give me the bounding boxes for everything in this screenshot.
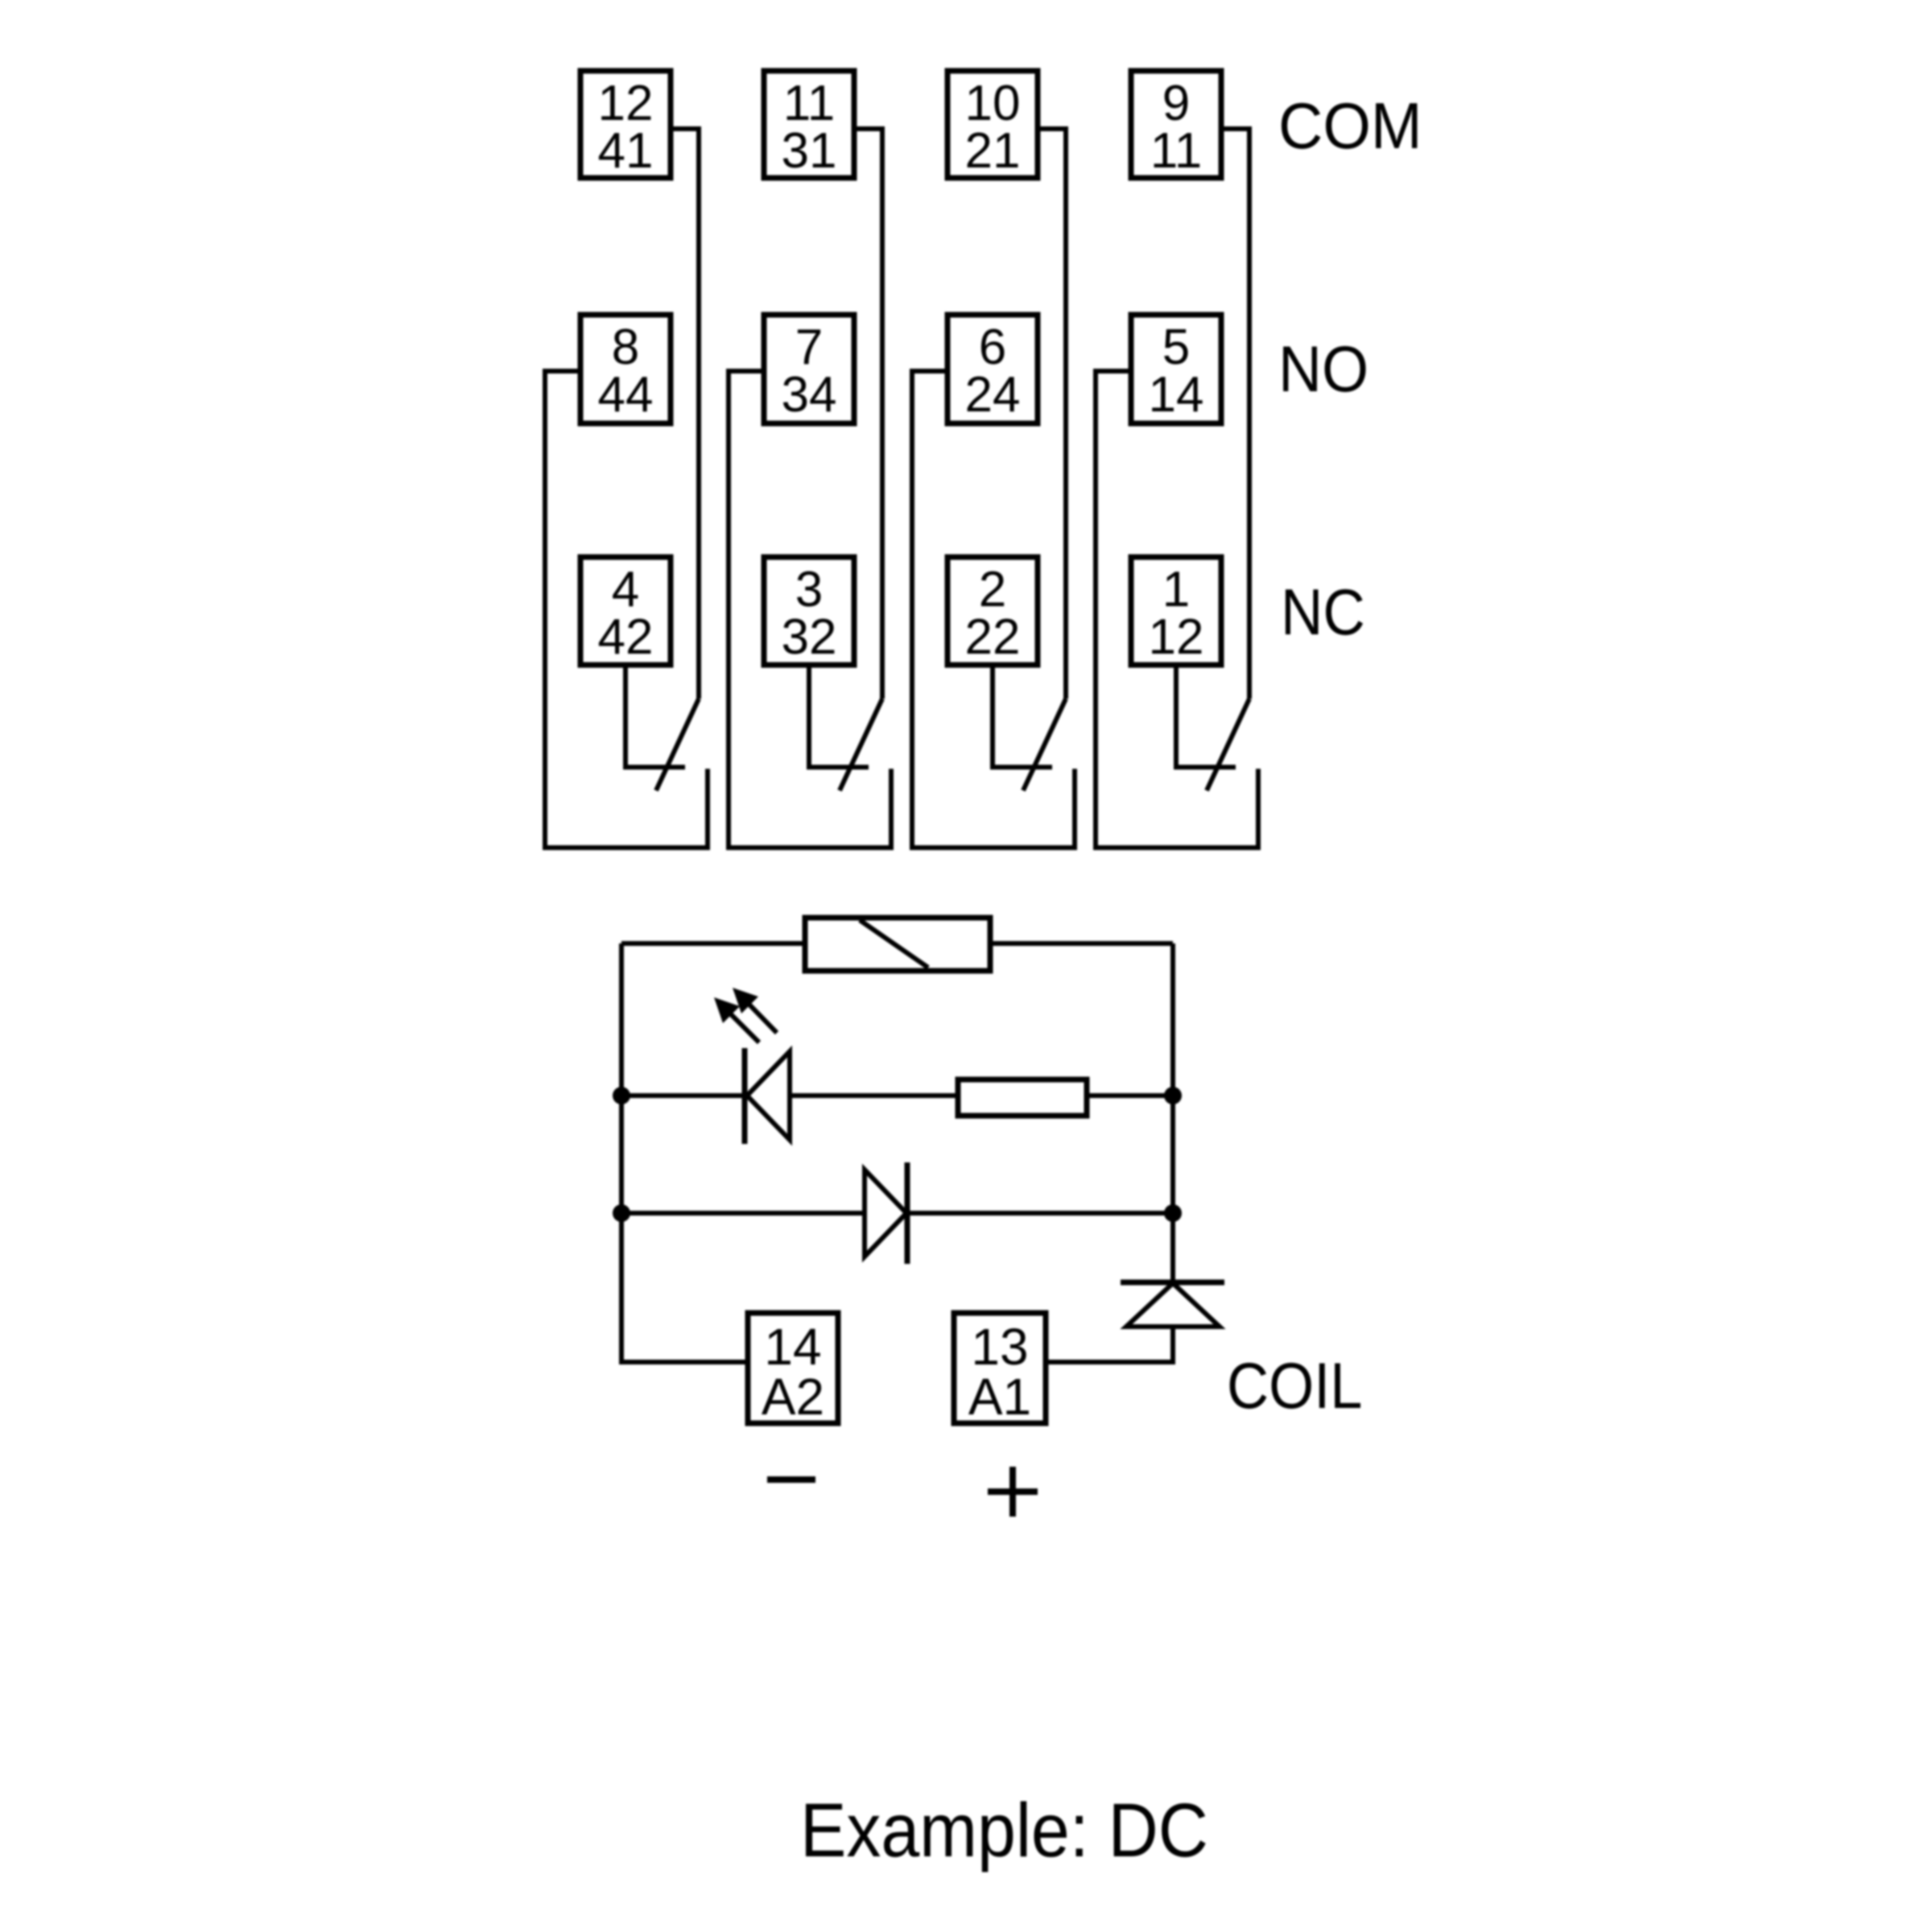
terminal 9/11 (COM pole 1) — [1131, 71, 1221, 179]
relay coil K1 (rectangle with diagonal) — [805, 918, 990, 971]
wire: top loop left segment to relay coil — [621, 941, 805, 946]
svg-text:34: 34 — [782, 367, 837, 423]
terminal 2/22 (NC pole 2) — [947, 557, 1038, 665]
junction: A2 rail / diode branch — [613, 1204, 630, 1222]
svg-text:COM: COM — [1278, 89, 1422, 162]
label COM row — [1278, 89, 1422, 162]
polarity mark plus (A1) — [988, 1467, 1038, 1517]
label NO row — [1278, 332, 1368, 405]
wire: COM terminal 12/41 to contact arm pivot — [671, 129, 699, 699]
wire: NO terminal 5/14 down to NO fixed contact stub — [1096, 371, 1258, 848]
wire: suppressor diode to terminal 13/A1 — [1046, 1327, 1173, 1362]
svg-text:14: 14 — [1149, 367, 1204, 423]
svg-text:22: 22 — [965, 609, 1021, 665]
wire: LED branch left segment — [621, 1093, 745, 1098]
changeover contact arm, pole 3 (crosses NC contact) — [840, 699, 882, 791]
svg-text:12: 12 — [1149, 609, 1204, 665]
caption Example: DC — [800, 1788, 1208, 1873]
svg-text:NC: NC — [1281, 576, 1365, 649]
wire: LED to resistor — [790, 1093, 958, 1098]
resistor (LED series) — [958, 1080, 1087, 1116]
terminal 7/34 (NO pole 3) — [764, 315, 854, 423]
svg-text:44: 44 — [598, 367, 654, 423]
svg-text:31: 31 — [782, 123, 837, 179]
wire: NC terminal 4/42 down to NC fixed contact — [625, 665, 685, 767]
label COIL — [1227, 1350, 1362, 1422]
svg-text:COIL: COIL — [1227, 1350, 1362, 1422]
diode (reverse polarity protection) — [865, 1162, 907, 1264]
terminal 8/44 (NO pole 4) — [580, 315, 671, 423]
wire: COM terminal 11/31 to contact arm pivot — [854, 129, 882, 699]
svg-text:A2: A2 — [762, 1368, 824, 1426]
wire: NO terminal 6/24 down to NO fixed contact stub — [912, 371, 1075, 848]
terminal 12/41 (COM pole 4) — [580, 71, 671, 179]
wire: NC terminal 1/12 down to NC fixed contact — [1176, 665, 1236, 767]
label NC row — [1281, 576, 1365, 649]
wire: A2 rail (left side) from top loop down to terminal 14/A2 — [621, 943, 748, 1362]
terminal 6/24 (NO pole 2) — [947, 315, 1038, 423]
LED indicator (triangle, cathode bar, emission arrows) — [714, 988, 790, 1144]
svg-text:32: 32 — [782, 609, 837, 665]
wire: diode branch left segment — [621, 1211, 865, 1216]
svg-text:Example: DC: Example: DC — [800, 1788, 1208, 1873]
changeover contact arm, pole 4 (crosses NC contact) — [656, 699, 699, 791]
svg-text:42: 42 — [598, 609, 654, 665]
svg-text:NO: NO — [1278, 332, 1368, 405]
terminal 11/31 (COM pole 3) — [764, 71, 854, 179]
wire: COM terminal 10/21 to contact arm pivot — [1038, 129, 1066, 699]
wire: NC terminal 2/22 down to NC fixed contact — [993, 665, 1052, 767]
terminal 13/A1 (coil plus) — [954, 1313, 1046, 1426]
terminal 4/42 (NC pole 4) — [580, 557, 671, 665]
terminal 5/14 (NO pole 1) — [1131, 315, 1221, 423]
svg-text:A1: A1 — [968, 1368, 1031, 1426]
svg-text:24: 24 — [965, 367, 1021, 423]
svg-text:41: 41 — [598, 123, 654, 179]
wire: NO terminal 8/44 down to NO fixed contact stub — [545, 371, 708, 848]
suppressor (zener) diode on A1 rail — [1121, 1282, 1224, 1327]
terminal 10/21 (COM pole 2) — [947, 71, 1038, 179]
svg-text:11: 11 — [1150, 123, 1202, 179]
terminal 14/A2 (coil minus) — [748, 1313, 838, 1426]
junction: A2 rail / LED branch — [613, 1087, 630, 1104]
wire: resistor to A1 rail — [1087, 1093, 1173, 1098]
terminal 3/32 (NC pole 3) — [764, 557, 854, 665]
wire: top loop right segment from coil to A1 rail — [990, 941, 1173, 946]
wire: diode to A1 rail — [907, 1211, 1173, 1216]
junction: A1 rail / diode branch — [1164, 1204, 1182, 1222]
terminal 1/12 (NC pole 1) — [1131, 557, 1221, 665]
wire: NC terminal 3/32 down to NC fixed contact — [809, 665, 869, 767]
svg-text:21: 21 — [965, 123, 1021, 179]
wire: A1 rail (right side) from top loop down to suppressor diode — [1170, 943, 1175, 1282]
changeover contact arm, pole 2 (crosses NC contact) — [1023, 699, 1066, 791]
wire: NO terminal 7/34 down to NO fixed contact stub — [729, 371, 891, 848]
wire: COM terminal 9/11 to contact arm pivot — [1221, 129, 1249, 699]
changeover contact arm, pole 1 (crosses NC contact) — [1207, 699, 1249, 791]
junction: A1 rail / resistor branch — [1164, 1087, 1182, 1104]
polarity mark minus (A2) — [767, 1476, 815, 1483]
